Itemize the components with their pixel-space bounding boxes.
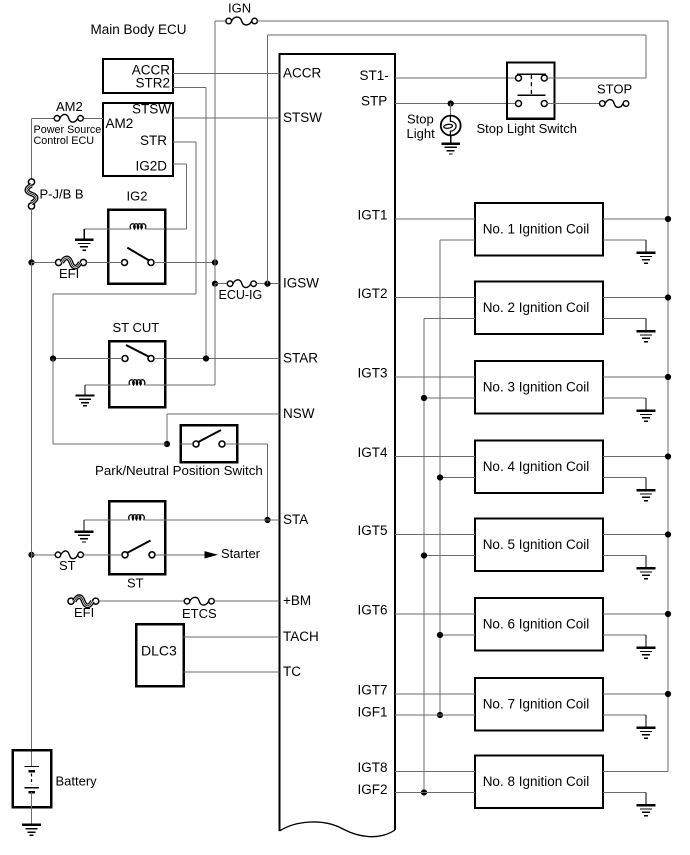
label Battery bbox=[56, 774, 98, 789]
wire ECU-IG fuse to junction bbox=[257, 283, 280, 285]
wire coil 1 feedback to bus bbox=[440, 239, 475, 241]
label No. 1 Ignition Coil bbox=[483, 222, 590, 237]
wire EFI to ETCS bbox=[99, 600, 184, 602]
label ECU-IG bbox=[219, 288, 263, 302]
ground (coil 2) bbox=[637, 319, 656, 342]
svg-text:AM2: AM2 bbox=[56, 99, 83, 114]
svg-text:IGT7: IGT7 bbox=[358, 683, 388, 698]
ECU pin label IGT5 bbox=[358, 523, 388, 538]
wire park/neutral output to corner bbox=[237, 443, 268, 445]
switch Stop Light Switch box bbox=[507, 62, 555, 118]
svg-text:TC: TC bbox=[283, 664, 301, 679]
wire IGT1: ECU to coil 1 bbox=[395, 218, 475, 220]
wire IGN vertical (IG2 to ECU-IG line) bbox=[214, 263, 216, 284]
wire coil 6 output to ignition bus bbox=[603, 613, 668, 615]
ignition coil No.5 box bbox=[475, 519, 603, 572]
ECU pin label STSW bbox=[283, 110, 322, 125]
wire STR vertical down bbox=[195, 142, 197, 294]
junction ECU-IG / stop light switch feed bbox=[264, 281, 270, 287]
ignition coil No.1 box bbox=[475, 203, 603, 256]
svg-text:IGT3: IGT3 bbox=[358, 366, 388, 381]
junction ignition bus / coil 7 bbox=[665, 691, 671, 697]
junction IGF1 bus / IGF1 line bbox=[437, 712, 443, 718]
wire ST1-: ECU to stop light switch bbox=[395, 77, 516, 79]
ECU pin label IGT6 bbox=[358, 603, 388, 618]
ECU (engine control module) main connector box U1 bbox=[280, 54, 396, 837]
junction STR2 / STAR line bbox=[203, 355, 209, 361]
relay IG2 box bbox=[108, 210, 165, 284]
wire coil 2 output to ignition bus bbox=[603, 297, 668, 299]
wire STA: ST relay coil to ECU pin STA bbox=[165, 519, 280, 521]
relay ST CUT coil bbox=[109, 380, 165, 385]
ECU pin label IGT4 bbox=[358, 445, 388, 460]
wire IG2 coil to ground bbox=[84, 228, 108, 230]
svg-text:No. 8 Ignition Coil: No. 8 Ignition Coil bbox=[483, 774, 590, 789]
ground (coil 7) bbox=[637, 715, 656, 738]
wire IGT4: ECU to coil 4 bbox=[395, 456, 475, 458]
junction ignition bus / coil 3 bbox=[665, 374, 671, 380]
label Stop Light Switch bbox=[477, 121, 577, 136]
wire stop light switch feed vertical bbox=[267, 35, 269, 284]
junction ignition bus / coil 4 bbox=[665, 453, 671, 459]
junction STR-return / ST CUT input bbox=[50, 355, 56, 361]
wire NSW vertical down bbox=[166, 414, 168, 444]
wire coil 5 output to ignition bus bbox=[603, 534, 668, 536]
svg-text:ACCR: ACCR bbox=[283, 65, 322, 80]
switch Park/Neutral contacts bbox=[181, 430, 238, 447]
wire ST relay output to starter arrow bbox=[165, 554, 205, 556]
svg-text:STOP: STOP bbox=[597, 81, 632, 96]
wire stop light stem bbox=[450, 104, 452, 116]
junction NSW / park-neutral line bbox=[164, 441, 170, 447]
ECU pin label IGF2 bbox=[358, 782, 388, 797]
wire ACCR: Main Body ECU to ECU pin ACCR bbox=[173, 73, 280, 75]
wire battery bus to EFI fuse bbox=[32, 262, 56, 264]
ECU pin label IGSW bbox=[283, 276, 319, 291]
relay ST coil bbox=[109, 515, 165, 520]
label STOP bbox=[597, 81, 632, 96]
wire IG2D vertical down bbox=[186, 164, 188, 229]
svg-text:IG2D: IG2D bbox=[135, 159, 167, 174]
label No. 6 Ignition Coil bbox=[483, 617, 590, 632]
ignition coil No.2 box bbox=[475, 282, 603, 335]
junction IGF2 bus / coil 3 bbox=[421, 395, 427, 401]
junction IG2 output / IGN vertical bbox=[212, 259, 218, 265]
svg-text:STA: STA bbox=[283, 512, 308, 527]
fuse ETCS bbox=[184, 597, 214, 605]
wire STR2 vertical down to STAR line bbox=[205, 88, 207, 359]
wire battery negative to ground bbox=[31, 792, 33, 825]
ECU pin label NSW bbox=[283, 406, 315, 421]
ground (ST relay coil) bbox=[75, 520, 94, 542]
junction ignition bus / coil 1 bbox=[665, 216, 671, 222]
wire IGT3: ECU to coil 3 bbox=[395, 376, 475, 378]
svg-text:+BM: +BM bbox=[283, 593, 311, 608]
ignition coil No.3 box bbox=[475, 361, 603, 414]
wire coil 4 ground lead bbox=[603, 477, 646, 479]
wire STAR: ST CUT relay to ECU pin STAR bbox=[165, 358, 280, 360]
wire coil 6 feedback to bus bbox=[440, 634, 475, 636]
svg-text:Stop Light Switch: Stop Light Switch bbox=[477, 121, 577, 136]
ground (coil 8) bbox=[637, 793, 656, 816]
svg-text:IG2: IG2 bbox=[127, 189, 148, 204]
ECU pin label +BM bbox=[283, 593, 311, 608]
ground (coil 1) bbox=[637, 240, 656, 263]
ignition coil No.7 box bbox=[475, 678, 603, 731]
svg-text:No. 1 Ignition Coil: No. 1 Ignition Coil bbox=[483, 222, 590, 237]
wire ignition bus vertical (right edge) bbox=[667, 21, 669, 772]
svg-text:ST1-: ST1- bbox=[360, 68, 389, 83]
pin label IG2D bbox=[135, 159, 167, 174]
lamp Stop Light bbox=[441, 116, 461, 136]
label EFI (lower) bbox=[74, 605, 94, 620]
wire IG2D to IG2 relay coil bbox=[165, 228, 187, 230]
svg-text:Control ECU: Control ECU bbox=[34, 135, 95, 147]
ECU pin label TACH bbox=[283, 629, 319, 644]
wire coil 5 ground lead bbox=[603, 555, 646, 557]
label IGN bbox=[228, 1, 251, 16]
svg-text:STAR: STAR bbox=[283, 350, 318, 365]
ECU pin label IGT3 bbox=[358, 366, 388, 381]
ground (ST CUT relay coil) bbox=[76, 385, 95, 406]
wire IGN horizontal to fuse bbox=[215, 20, 226, 22]
label Power Source Control ECU bbox=[34, 124, 102, 147]
wire coil 1 ground lead bbox=[603, 239, 646, 241]
wire ST CUT coil vertical (down to relay) bbox=[214, 284, 216, 385]
pin label AM2 (inside box) bbox=[106, 116, 134, 131]
wire ST coil left to ground bbox=[84, 519, 109, 521]
svg-text:IGF1: IGF1 bbox=[358, 705, 388, 720]
wire IGT7: ECU to coil 7 bbox=[395, 693, 475, 695]
svg-text:ST: ST bbox=[59, 558, 76, 573]
svg-text:Light: Light bbox=[407, 126, 436, 141]
wire ST CUT coil left to ground bbox=[85, 384, 109, 386]
label Park/Neutral Position Switch bbox=[95, 463, 263, 478]
svg-text:STSW: STSW bbox=[132, 102, 171, 117]
wire STR: box right to corner bbox=[173, 141, 196, 143]
ECU pin label ACCR bbox=[283, 65, 322, 80]
wire coil 4 output to ignition bus bbox=[603, 456, 668, 458]
wire park/neutral line to STR-return corner bbox=[53, 443, 167, 445]
junction IGF2 bus / coil 5 bbox=[421, 552, 427, 558]
svg-text:No. 2 Ignition Coil: No. 2 Ignition Coil bbox=[483, 300, 590, 315]
wire battery bus top segment (AM2 corner down to P-J/B B) bbox=[31, 118, 33, 179]
svg-text:Battery: Battery bbox=[56, 774, 98, 789]
svg-text:STR: STR bbox=[140, 133, 167, 148]
svg-text:STSW: STSW bbox=[283, 110, 322, 125]
junction ignition bus / coil 6 bbox=[665, 611, 671, 617]
svg-text:ECU-IG: ECU-IG bbox=[219, 288, 263, 302]
wire STR return vertical down to STAR line bbox=[52, 294, 54, 359]
wire IGN fuse to right bus bbox=[258, 20, 669, 22]
switch contacts lower (open) bbox=[516, 101, 548, 107]
switch Park/Neutral Position box bbox=[181, 425, 238, 462]
label Stop Light bbox=[407, 111, 436, 141]
wire IGT6: ECU to coil 6 bbox=[395, 613, 475, 615]
wire IG2 relay output to IGN bus bbox=[165, 262, 215, 264]
wire coil 3 feedback to bus bbox=[424, 397, 475, 399]
svg-text:Park/Neutral Position Switch: Park/Neutral Position Switch bbox=[95, 463, 263, 478]
wire ETCS to ECU pin +BM bbox=[214, 600, 279, 602]
ECU pin label STP bbox=[361, 94, 387, 109]
wire coil 2 feedback to bus bbox=[424, 318, 475, 320]
fusible link EFI (upper) bbox=[56, 258, 87, 267]
label No. 4 Ignition Coil bbox=[483, 459, 590, 474]
junction ECU-IG feed bbox=[212, 281, 218, 287]
svg-text:IGT1: IGT1 bbox=[358, 208, 388, 223]
wire IGF1: ECU to coil 7 lower bbox=[395, 714, 475, 716]
ECU pin label STA bbox=[283, 512, 308, 527]
svg-text:EFI: EFI bbox=[74, 605, 94, 620]
switch contacts upper (closed) bbox=[516, 74, 548, 81]
wire park/neutral output vertical down to STA bbox=[267, 444, 269, 520]
junction STA / park-neutral bbox=[264, 517, 270, 523]
label No. 2 Ignition Coil bbox=[483, 300, 590, 315]
wire coil 6 ground lead bbox=[603, 634, 646, 636]
svg-text:AM2: AM2 bbox=[106, 116, 134, 131]
wire battery bus: EFI junction down to ST junction bbox=[31, 263, 33, 555]
wire coil 7 ground lead bbox=[603, 714, 646, 716]
wire AM2 fuse to box bbox=[83, 117, 103, 119]
switch actuator dashed link bbox=[530, 75, 532, 95]
label ST CUT bbox=[113, 320, 160, 335]
label ST (fuse) bbox=[59, 558, 76, 573]
wire IGF2: ECU to coil 8 lower bbox=[395, 792, 475, 794]
ground (stop light) bbox=[441, 135, 460, 154]
fuse ST bbox=[55, 551, 83, 559]
svg-text:IGN: IGN bbox=[228, 1, 251, 16]
svg-text:ST: ST bbox=[127, 576, 144, 591]
arrow to Starter bbox=[205, 551, 219, 558]
relay IG2 switch bbox=[108, 248, 165, 266]
svg-text:IGT8: IGT8 bbox=[358, 760, 388, 775]
wire IGF1 bus vertical bbox=[439, 240, 441, 715]
ground (coil 5) bbox=[637, 556, 656, 579]
ground (IG2 relay coil) bbox=[75, 229, 94, 250]
junction battery bus / ST fuse bbox=[28, 552, 34, 558]
wire STR return horizontal bbox=[53, 293, 196, 295]
wire STSW: box to ECU pin STSW bbox=[173, 117, 280, 119]
ECU pin label IGT7 bbox=[358, 683, 388, 698]
relay ST CUT box bbox=[109, 341, 165, 407]
junction STP / stop light bbox=[448, 100, 454, 106]
label No. 5 Ignition Coil bbox=[483, 537, 590, 552]
svg-text:Power Source: Power Source bbox=[34, 124, 102, 136]
svg-text:NSW: NSW bbox=[283, 406, 315, 421]
pin label STR bbox=[140, 133, 167, 148]
wire NSW: ECU pin NSW to corner bbox=[167, 413, 280, 415]
Main Body ECU box (ACCR/STR2 outputs) bbox=[103, 59, 173, 93]
fuse ECU-IG bbox=[227, 280, 256, 288]
fuse STOP bbox=[600, 100, 629, 108]
wire IGT5: ECU to coil 5 bbox=[395, 534, 475, 536]
wire STR-return... vertical from STAR junction down bbox=[52, 359, 54, 445]
pin label STR2 (Main Body ECU) bbox=[135, 76, 170, 91]
pin label ACCR (Main Body ECU) bbox=[132, 63, 171, 78]
label DLC3 bbox=[141, 642, 177, 658]
wire IGN vertical up from IG2 junction to IGN fuse corner bbox=[214, 21, 216, 263]
wire STR2: box to vertical bbox=[173, 87, 206, 89]
svg-text:STR2: STR2 bbox=[135, 76, 170, 91]
svg-text:Main Body ECU: Main Body ECU bbox=[91, 22, 187, 37]
svg-text:TACH: TACH bbox=[283, 629, 319, 644]
label ETCS bbox=[182, 606, 217, 621]
wire coil 4 feedback to bus bbox=[440, 477, 475, 479]
label No. 7 Ignition Coil bbox=[483, 697, 590, 712]
wire ST fuse to relay bbox=[84, 554, 110, 556]
wire coil 3 ground lead bbox=[603, 397, 646, 399]
relay ST box bbox=[109, 501, 165, 574]
label EFI (upper) bbox=[59, 266, 79, 281]
ECU pin label IGT8 bbox=[358, 760, 388, 775]
svg-text:ETCS: ETCS bbox=[182, 606, 217, 621]
wire coil 8 ground lead bbox=[603, 792, 646, 794]
svg-text:No. 6 Ignition Coil: No. 6 Ignition Coil bbox=[483, 617, 590, 632]
fusible link EFI (lower) bbox=[68, 597, 99, 606]
label ST (relay) bbox=[127, 576, 144, 591]
junction ignition bus / coil 2 bbox=[665, 294, 671, 300]
ignition coil No.6 box bbox=[475, 598, 603, 651]
svg-text:IGT2: IGT2 bbox=[358, 286, 388, 301]
svg-text:DLC3: DLC3 bbox=[141, 642, 177, 658]
svg-text:STP: STP bbox=[361, 94, 387, 109]
ECU pin label IGT1 bbox=[358, 208, 388, 223]
svg-text:EFI: EFI bbox=[59, 266, 79, 281]
wire IGT2: ECU to coil 2 bbox=[395, 297, 475, 299]
svg-text:P-J/B B: P-J/B B bbox=[40, 187, 84, 202]
wire switch upper output to feed bbox=[547, 77, 646, 79]
label No. 3 Ignition Coil bbox=[483, 380, 590, 395]
wire ST CUT coil right to IGN vertical bbox=[165, 384, 215, 386]
svg-text:ST CUT: ST CUT bbox=[113, 320, 160, 335]
wire coil 5 feedback to bus bbox=[424, 555, 475, 557]
connector DLC3 box bbox=[136, 624, 184, 686]
wire STAR: ST CUT left to STR-return junction bbox=[53, 358, 109, 360]
ignition coil No.8 box bbox=[475, 756, 603, 809]
relay ST switch bbox=[109, 541, 165, 558]
svg-text:IGT6: IGT6 bbox=[358, 603, 388, 618]
wire battery bus: P-J/B B down to EFI junction bbox=[31, 209, 33, 263]
label Starter bbox=[221, 546, 261, 561]
wire switch lower output to STOP fuse bbox=[547, 103, 599, 105]
wire coil 1 output to ignition bus bbox=[603, 218, 668, 220]
Power Source Control ECU box bbox=[103, 103, 173, 176]
wire stop light switch feed horizontal (y=35) bbox=[268, 34, 647, 36]
wire coil 7 output to ignition bus bbox=[603, 693, 668, 695]
wire coil 2 ground lead bbox=[603, 318, 646, 320]
ECU pin label IGF1 bbox=[358, 705, 388, 720]
junction IGF1 bus / coil 4 bbox=[437, 474, 443, 480]
fusible link P-J/B B bbox=[27, 179, 36, 209]
ground (coil 6) bbox=[637, 635, 656, 658]
junction ignition bus / coil 5 bbox=[665, 531, 671, 537]
battery cells bbox=[24, 767, 39, 793]
wire EFI fuse to IG2 relay bbox=[87, 262, 108, 264]
wire STP: ECU to stop light switch bbox=[395, 103, 516, 105]
wire coil 3 output to ignition bus bbox=[603, 376, 668, 378]
ground (battery) bbox=[22, 825, 41, 835]
svg-text:Stop: Stop bbox=[407, 111, 434, 126]
svg-text:No. 5 Ignition Coil: No. 5 Ignition Coil bbox=[483, 537, 590, 552]
pin label STSW bbox=[132, 102, 171, 117]
svg-text:IGF2: IGF2 bbox=[358, 782, 388, 797]
junction IGF1 bus / coil 6 bbox=[437, 632, 443, 638]
label IG2 bbox=[127, 189, 148, 204]
wire TACH: DLC3 to ECU pin TACH bbox=[184, 636, 280, 638]
ECU pin label IGT2 bbox=[358, 286, 388, 301]
wire IGF2 bus vertical bbox=[423, 319, 425, 793]
battery box bbox=[13, 750, 52, 807]
fuse IGN bbox=[226, 17, 258, 25]
label No. 8 Ignition Coil bbox=[483, 774, 590, 789]
svg-text:No. 7 Ignition Coil: No. 7 Ignition Coil bbox=[483, 697, 590, 712]
svg-text:IGT4: IGT4 bbox=[358, 445, 388, 460]
ignition coil No.4 box bbox=[475, 441, 603, 494]
wire IG2D: box right to corner bbox=[173, 163, 187, 165]
wire coil 8 output to ignition bus bbox=[603, 771, 668, 773]
svg-text:No. 4 Ignition Coil: No. 4 Ignition Coil bbox=[483, 459, 590, 474]
ground (coil 3) bbox=[637, 398, 656, 421]
switch actuator bar bbox=[517, 94, 545, 96]
junction battery bus / EFI fuse bbox=[28, 259, 34, 265]
ECU pin label TC bbox=[283, 664, 301, 679]
wire ECU-IG junction to fuse bbox=[215, 283, 227, 285]
svg-text:No. 3 Ignition Coil: No. 3 Ignition Coil bbox=[483, 380, 590, 395]
svg-text:IGT5: IGT5 bbox=[358, 523, 388, 538]
junction IGF2 bus / IGF2 line bbox=[421, 789, 427, 795]
relay ST CUT switch bbox=[109, 345, 165, 362]
relay IG2 coil bbox=[108, 224, 165, 229]
label P-J/B B bbox=[40, 187, 84, 202]
fuse AM2 bbox=[54, 114, 83, 122]
ECU pin label STAR bbox=[283, 350, 318, 365]
wire AM2 feed: battery bus to fuse bbox=[32, 117, 55, 119]
label AM2 (fuse) bbox=[56, 99, 83, 114]
Main Body ECU label bbox=[91, 22, 187, 37]
svg-text:IGSW: IGSW bbox=[283, 276, 319, 291]
ground (coil 4) bbox=[637, 478, 656, 501]
ECU pin label ST1- bbox=[360, 68, 389, 83]
wire battery bus: ST junction down to battery bbox=[31, 555, 33, 767]
wire IGT8: ECU to coil 8 bbox=[395, 771, 475, 773]
wire battery bus to ST fuse bbox=[32, 554, 56, 556]
svg-text:Starter: Starter bbox=[221, 546, 261, 561]
wire stop light switch feed down right bbox=[645, 35, 647, 78]
wire TC: DLC3 to ECU pin TC bbox=[184, 671, 280, 673]
